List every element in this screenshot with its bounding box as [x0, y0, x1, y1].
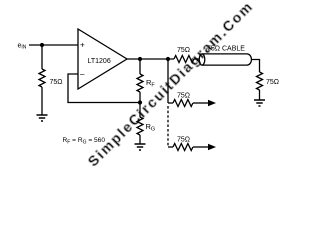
- svg-text:75Ω: 75Ω: [266, 79, 279, 86]
- resistor 75ohm far termination: [257, 72, 263, 90]
- wire branch 1 to arrow: [193, 102, 209, 104]
- svg-text:–: –: [80, 70, 85, 79]
- ground (far termination): [254, 100, 265, 106]
- cable 75ohm coax cylinder: [202, 54, 252, 65]
- resistor RF: [137, 74, 143, 92]
- node branch junction: [166, 57, 170, 61]
- svg-text:LT1206: LT1206: [88, 58, 111, 65]
- wire branch 2 to arrow: [193, 146, 209, 148]
- wire branch dashed: [167, 106, 169, 147]
- wire node to RG: [139, 103, 141, 118]
- wire branch 1: [168, 102, 173, 104]
- svg-text:+: +: [80, 41, 85, 50]
- wire input node down to R-term: [41, 45, 43, 69]
- wire branch 2: [168, 146, 173, 148]
- node input junction: [40, 43, 44, 47]
- node RF RG junction: [138, 100, 142, 104]
- svg-text:75Ω: 75Ω: [177, 93, 190, 100]
- svg-text:75Ω: 75Ω: [50, 79, 63, 86]
- wire resistor to ground: [41, 87, 43, 115]
- svg-text:75Ω CABLE: 75Ω CABLE: [207, 46, 245, 53]
- wire output node to RF: [139, 59, 141, 74]
- resistor 75ohm branch 1: [173, 100, 193, 107]
- ground (input termination): [37, 115, 48, 121]
- wire resistor to cable: [194, 58, 199, 60]
- svg-text:75Ω: 75Ω: [177, 47, 190, 54]
- wire feedback minus input: [68, 74, 140, 103]
- svg-text:75Ω: 75Ω: [177, 137, 190, 144]
- wire branch node down solid: [167, 59, 169, 103]
- resistor 75ohm branch 2: [173, 144, 193, 151]
- wire RF to node: [139, 92, 141, 103]
- wire cable to termination: [252, 60, 260, 73]
- wire RG to ground: [139, 135, 141, 144]
- ground (RG): [135, 144, 146, 150]
- resistor 75ohm input termination: [39, 69, 45, 87]
- arrowhead branch 1: [208, 100, 216, 106]
- node output RF junction: [138, 57, 142, 61]
- wire to ground: [259, 90, 261, 100]
- wire op-amp output: [127, 58, 174, 60]
- wire input eIN to op-amp +: [29, 44, 78, 46]
- op-amp U1 LT1206 triangle: [78, 29, 127, 89]
- svg-text:eIN: eIN: [18, 43, 27, 51]
- resistor 75ohm series top: [174, 56, 194, 63]
- resistor RG: [137, 117, 143, 135]
- arrowhead branch 2: [208, 144, 216, 150]
